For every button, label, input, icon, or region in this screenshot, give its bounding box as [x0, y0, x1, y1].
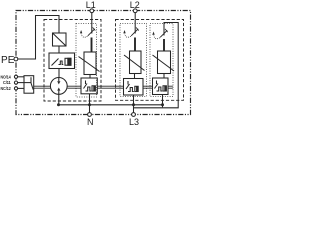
- disconnector S2 (thermo-dynamic, L2): [123, 27, 138, 37]
- terminal N: [88, 113, 92, 117]
- svg-text:L1: L1: [86, 0, 96, 10]
- svg-text:PE: PE: [1, 55, 15, 66]
- wire N stub: [89, 105, 91, 113]
- label NO/14: [1, 74, 12, 79]
- wire indicator A1 to bus: [89, 94, 91, 105]
- wire V4 to trigger circuit: [58, 46, 60, 53]
- svg-text:C/11: C/11: [3, 80, 11, 85]
- wire indicator A3 to bus: [162, 95, 164, 108]
- varistor V3 (L3): [153, 51, 175, 74]
- wire V2 to indicator: [134, 74, 136, 79]
- terminal L1: [90, 9, 94, 13]
- varistor V2 (L2): [124, 51, 145, 74]
- varistor V1 (L1): [79, 52, 100, 75]
- svg-text:NO/14: NO/14: [1, 74, 12, 79]
- wire trigger circuit to spark gap: [58, 69, 60, 78]
- terminal L3: [132, 113, 136, 117]
- trigger circuit box U1: [49, 53, 75, 69]
- wire spark gap to N bus: [58, 94, 60, 105]
- dotted thermal-disconnect unit box L1: [76, 24, 97, 98]
- wire terminal C/11 to K1: [18, 82, 24, 84]
- label PE: [1, 55, 15, 66]
- svg-text:N: N: [87, 117, 94, 127]
- dashed box module 2 (L2 + L3 protection unit): [116, 20, 184, 101]
- terminal NO/14: [14, 75, 17, 78]
- mechanical link K1 to spark gap: [34, 86, 51, 88]
- enclosure border (dash-dot device boundary): [16, 11, 191, 115]
- terminal C/11: [14, 81, 17, 84]
- terminal NC/12: [14, 87, 17, 90]
- wire L1 branch: [91, 13, 93, 53]
- junction dot spark gap / bus: [57, 103, 60, 106]
- disconnect indicator A2 (L2): [124, 79, 144, 96]
- dashed box module 1 (N-PE + L1 protection unit): [44, 20, 101, 102]
- terminal L2: [133, 9, 137, 13]
- mechanical link spark gap to indicator A1: [67, 86, 81, 88]
- label NC/12: [1, 86, 12, 91]
- mechanical link indicator A3 stub: [168, 86, 173, 88]
- wire L3 terminal link (around right side): [134, 23, 179, 113]
- label N: [87, 117, 94, 127]
- dotted thermal-disconnect unit box L3: [150, 24, 173, 97]
- label L3: [129, 117, 139, 127]
- mechanical link indicator A2 to indicator A3: [143, 86, 153, 88]
- terminal PE: [14, 57, 18, 61]
- varistor V4 (square with diagonal, N-PE trigger path): [53, 33, 67, 46]
- svg-text:L2: L2: [130, 0, 140, 10]
- wire V3 to indicator: [163, 74, 165, 79]
- spark gap F1 (circle with facing arrows): [50, 78, 67, 95]
- junction dot L3 branch / bus: [161, 103, 164, 106]
- svg-text:NC/12: NC/12: [1, 86, 12, 91]
- junction dot L1 branch / bus: [88, 103, 91, 106]
- remote signalling changeover contact K1: [24, 76, 34, 94]
- wire terminal NO/14 to K1: [18, 76, 24, 78]
- label L1: [86, 0, 96, 10]
- wire L2 branch: [134, 13, 136, 52]
- disconnect indicator A1 (L1): [81, 78, 97, 94]
- mechanical link indicator A1 to indicator A2: [97, 86, 123, 88]
- disconnector S3 (thermo-dynamic, L3): [152, 29, 167, 39]
- disconnector S1 (thermo-dynamic, L1): [80, 27, 95, 37]
- svg-text:L3: L3: [129, 117, 139, 127]
- disconnect indicator A3 (L3): [153, 78, 169, 95]
- dotted thermal-disconnect unit box L2: [120, 24, 147, 97]
- junction dot L2 branch / bus: [132, 103, 135, 106]
- label C/11: [3, 80, 11, 85]
- wire PE to varistor V4: [18, 16, 59, 60]
- wire V1 to indicator: [89, 75, 91, 79]
- label L2: [130, 0, 140, 10]
- N bus wire: [59, 104, 163, 106]
- wire indicator A2 to bus: [133, 95, 135, 108]
- wire terminal NC/12 to K1: [18, 87, 24, 89]
